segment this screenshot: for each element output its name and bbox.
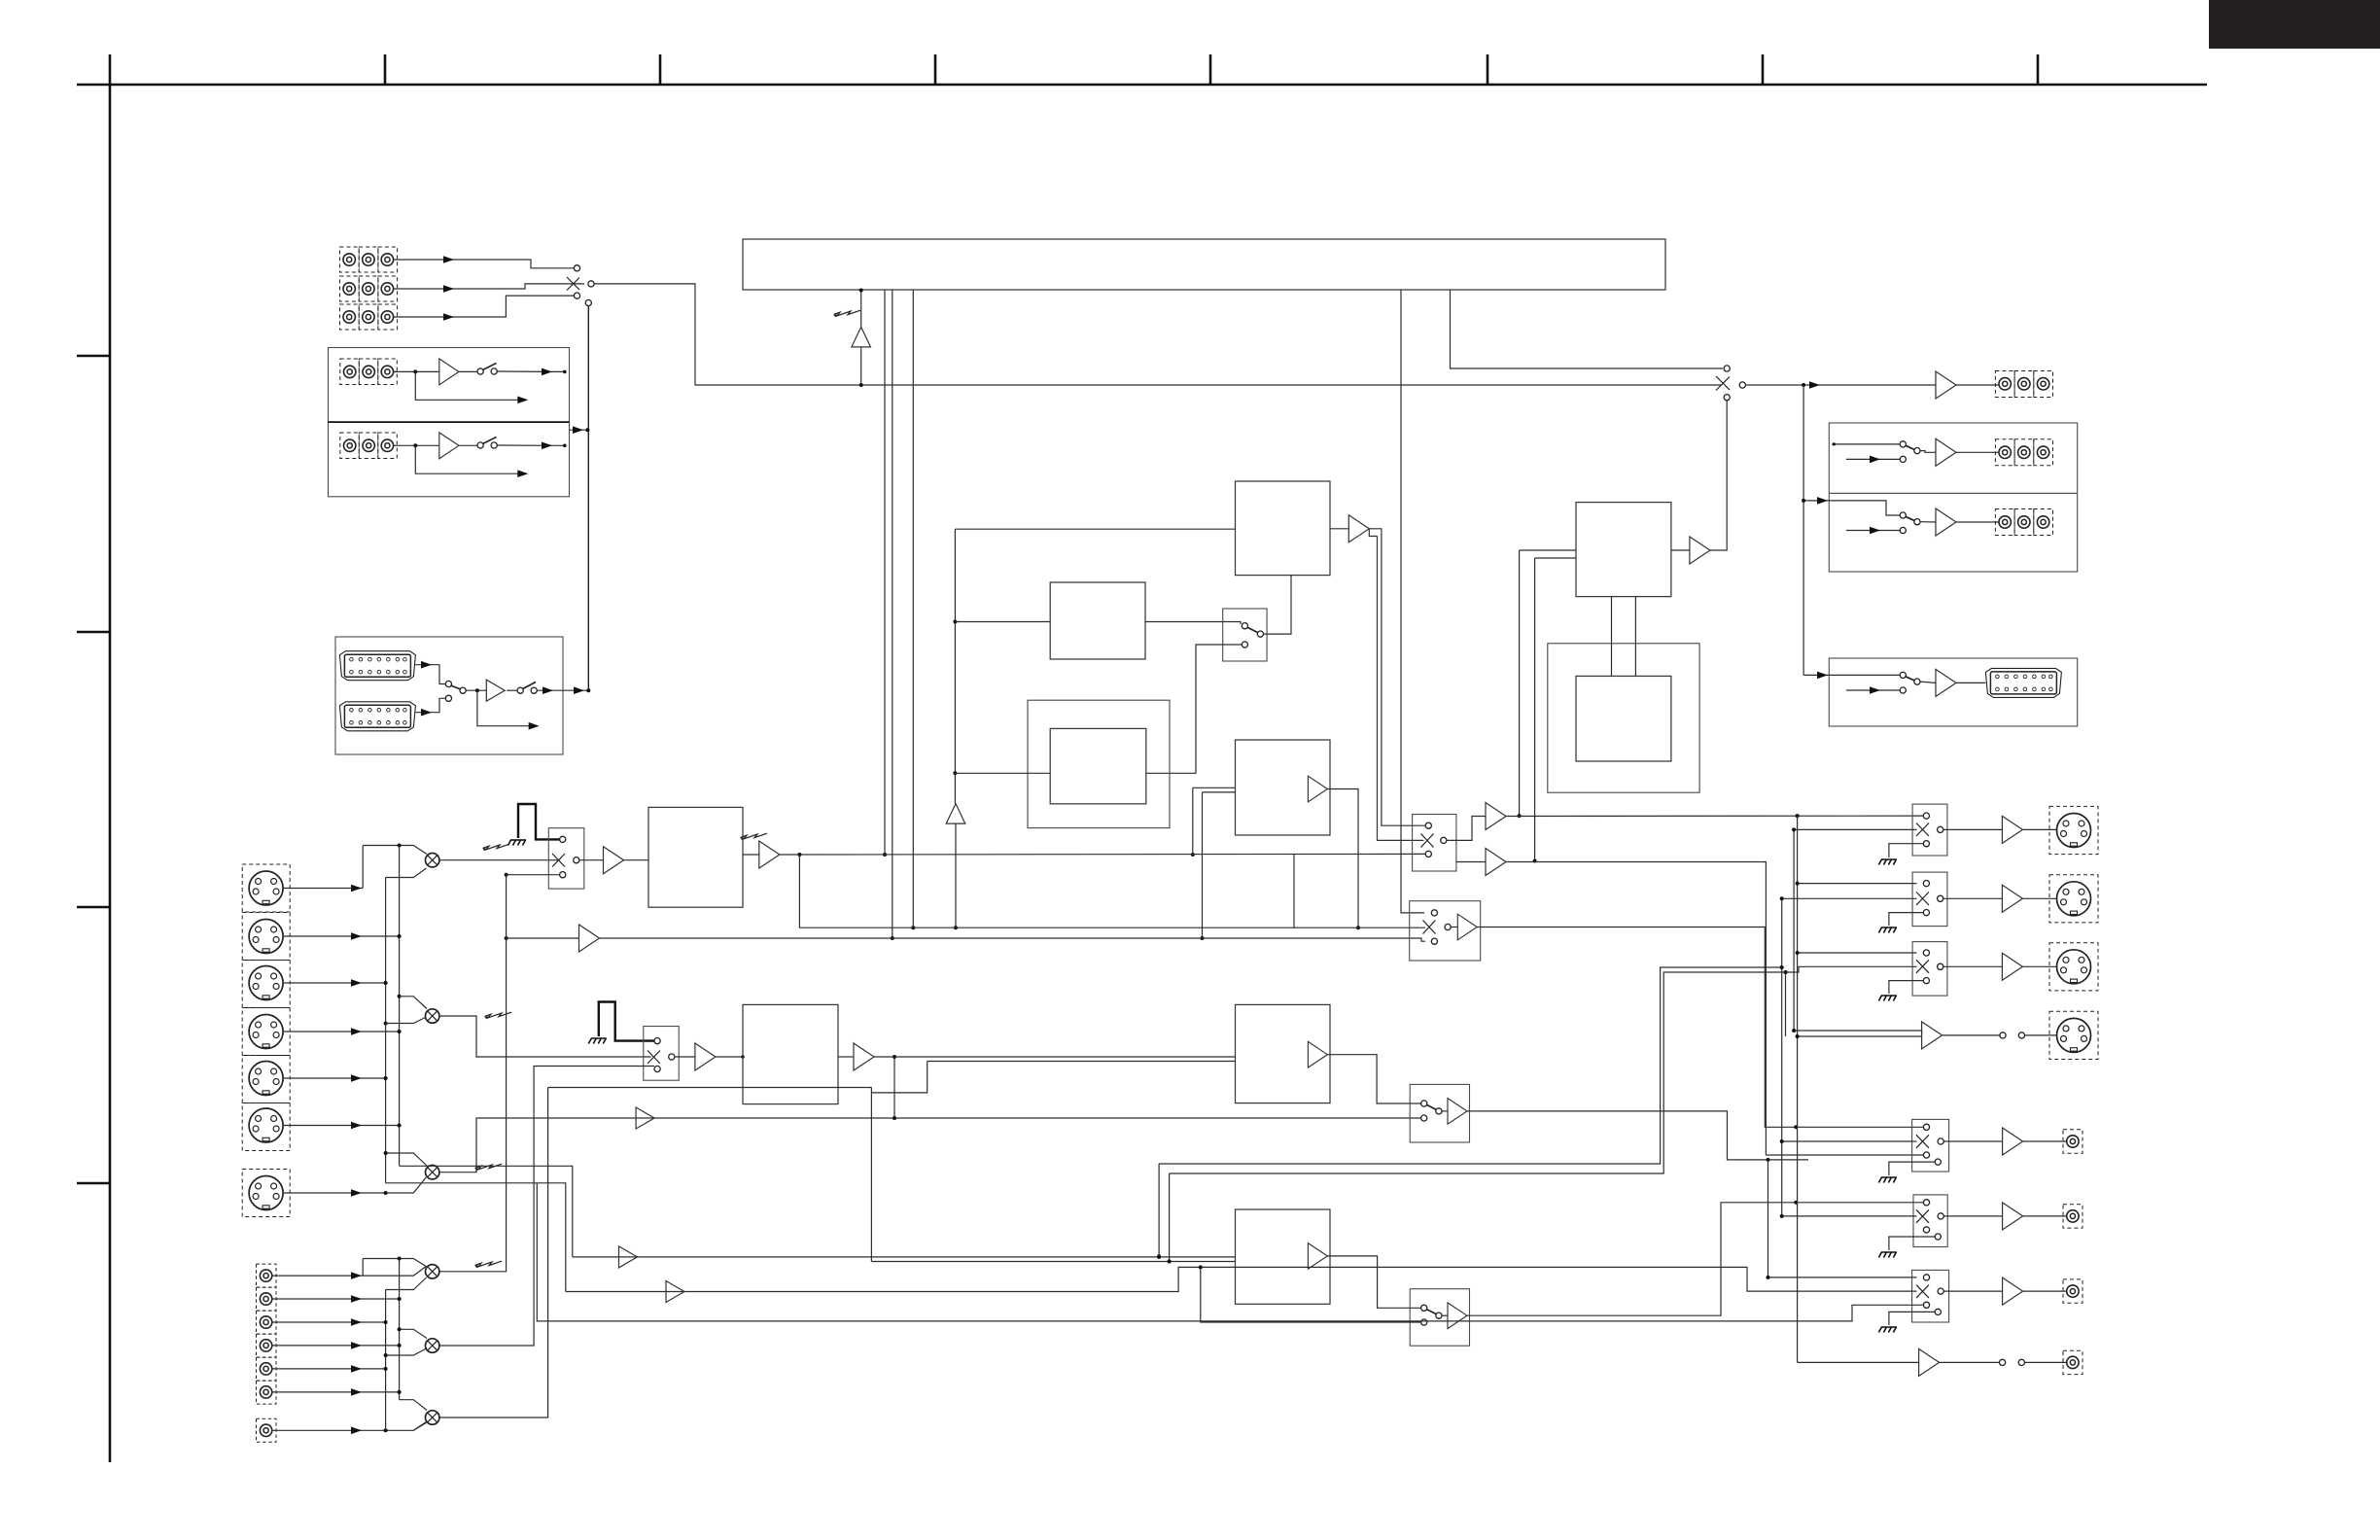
V1 row wire + buffer + switch — [394, 370, 439, 372]
bus drop vertical B — [892, 290, 893, 938]
block0 inner buffer — [1308, 776, 1327, 802]
ground G1 bold wire — [518, 804, 560, 839]
drop from video wire down — [799, 855, 1425, 927]
W885 to composite row1 lower — [1506, 862, 1923, 1156]
s-video output connector 3 — [2057, 950, 2091, 984]
drop pair from block1 buffer output — [1369, 529, 1425, 825]
input switch box 2 — [644, 1027, 679, 1081]
composite mixer A2 — [426, 1339, 439, 1352]
cvout row1 box — [1912, 1119, 1949, 1172]
scart selector to buffer — [466, 689, 486, 691]
DSP block0 — [1236, 740, 1331, 835]
B2 output wire — [1467, 1111, 1808, 1160]
vcr out component jacks row1 — [1999, 446, 2011, 458]
cvout row2 ground — [1889, 1237, 1935, 1250]
tick left 4 — [77, 1182, 110, 1185]
W1329 record wire with buffer — [566, 1267, 1917, 1291]
A3 output up to record riser — [439, 1088, 548, 1418]
block3 input stubs — [1520, 549, 1576, 551]
stub arrow into vcr out box row2 — [1803, 501, 1900, 515]
cvout jack 4 — [2063, 1350, 2082, 1374]
aux combined output arrow to tap line — [570, 429, 588, 431]
bus drop vertical A — [884, 290, 886, 855]
cvout jack 1 — [2063, 1130, 2082, 1153]
spark at mixer3 — [475, 1164, 503, 1171]
second long wire from lower buffer — [507, 937, 579, 939]
mixer1 top feed — [363, 846, 427, 855]
W1359 record wire — [537, 1183, 1923, 1321]
collector vertical V410 — [399, 846, 401, 1167]
box A lower out to buffer2 — [1456, 861, 1486, 863]
mixer2 top feed — [400, 997, 427, 1009]
svout row1 X feed — [1794, 828, 1916, 830]
svout row3 ground — [1889, 981, 1923, 994]
cvout row4 buffer — [1919, 1348, 1940, 1376]
DSP block A — [1236, 1004, 1331, 1102]
block2 input wire — [955, 621, 1050, 623]
mixer1 output to switch box 1 — [439, 859, 560, 861]
double box inner DSP (right) — [1576, 676, 1671, 761]
scart selector contacts — [445, 681, 451, 686]
mixer2 bottom feed — [386, 1017, 427, 1024]
wire row2 to selector — [394, 284, 584, 289]
aux video-4 input jacks — [344, 366, 356, 377]
selector S1 contacts — [574, 265, 579, 271]
buffer1 (monitor S Y) — [1486, 803, 1506, 830]
W1360 to selector C lower — [1201, 1267, 1421, 1322]
composite mixer A3 — [426, 1411, 439, 1424]
buffer C — [1442, 1314, 1448, 1316]
svout row2 buffer — [1943, 897, 2003, 899]
cvout row3 ground — [1889, 1312, 1935, 1325]
component input jacks row 2 — [343, 283, 355, 295]
monitor out RCA trio — [1995, 371, 2052, 398]
tick left 3 — [77, 906, 110, 909]
s-video input connector 3 — [249, 966, 283, 1000]
bus drop vertical D (to selector B) — [1401, 290, 1424, 913]
s-video input connector 4 — [249, 1015, 283, 1049]
svout row1 contacts — [1923, 813, 1929, 819]
tick top 2 — [659, 54, 662, 85]
component input jacks row 3 — [343, 311, 355, 323]
scart box outline — [335, 637, 563, 754]
cv input wires — [272, 1267, 427, 1277]
W839 to s-video out row1 — [1506, 815, 1923, 817]
video block2 output buffer — [838, 1056, 854, 1058]
spark at A1 — [475, 1261, 503, 1268]
switch common up to block1 bottom — [1264, 576, 1292, 635]
s-video input connector 1 — [249, 871, 283, 905]
composite video output jack 4 — [2067, 1356, 2079, 1368]
mixer3 output down to record wire — [439, 1118, 633, 1172]
block3 output buffer — [1671, 549, 1690, 551]
riser from record wire — [870, 1088, 872, 1262]
s-video input connector 5 — [249, 1062, 283, 1096]
svout row4 direct feed pair — [1794, 1031, 1922, 1035]
component input jacks row 1 (dashed boxes) — [340, 247, 398, 330]
ground G2 bold wire — [599, 1002, 654, 1041]
svout row1 box — [1912, 804, 1947, 856]
W1217 from collector — [386, 1183, 566, 1292]
DSP block B — [1236, 1209, 1331, 1304]
s-video output connector 4 — [2057, 1018, 2091, 1052]
monitor out buffer — [1936, 371, 1956, 399]
stub arrow into scart out box — [1803, 674, 1900, 676]
output box outline — [1829, 423, 2077, 572]
video mixer M3 — [426, 1166, 439, 1179]
s-video input connector 6 — [249, 1108, 283, 1142]
s-video output connector 2 — [2057, 882, 2091, 916]
aux box outline — [329, 348, 570, 497]
tick top 4 — [1209, 54, 1212, 85]
cvout row2 buffer — [1943, 1215, 2002, 1217]
svout row2 feeds — [1798, 883, 1917, 885]
W1199 from collector — [400, 1166, 573, 1257]
composite video input jack 1 — [260, 1270, 271, 1281]
svout connector 3 — [2049, 943, 2098, 991]
A1 lower diag — [386, 1277, 427, 1290]
composite video input jack 3 — [260, 1316, 271, 1328]
svout row3 buffer — [1943, 965, 2003, 967]
video block 2 — [743, 1004, 838, 1103]
component input jacks row 1 — [343, 254, 355, 265]
video mixer M2 — [426, 1009, 439, 1023]
record wire W1150 to selector B2 — [633, 1117, 1421, 1119]
C output wire to composite out row2 — [1467, 1203, 1923, 1315]
svout row2 ground — [1889, 913, 1923, 926]
row1 RCA trio — [1995, 439, 2052, 466]
s-video input dashed boxes — [242, 864, 290, 1217]
ground G2 — [588, 1038, 607, 1044]
mixer1 bottom feed — [386, 868, 427, 878]
V1 feedback arrow — [415, 371, 522, 400]
row2 RCA trio — [1995, 509, 2052, 536]
C-line tap down from mixer1 out — [507, 874, 560, 876]
block2 to switch wire — [1145, 622, 1241, 625]
selector contacts — [1724, 366, 1730, 371]
block A output to selector B2 — [1327, 1055, 1420, 1103]
tick top 1 — [384, 54, 387, 85]
V2 row wire + buffer + switch — [394, 444, 439, 446]
cv mixer A3 feeds — [400, 1400, 427, 1411]
A2 output up to video2 switch — [439, 1067, 654, 1347]
composite video input jack 6 — [260, 1386, 271, 1398]
wire tap down to SCART/video2 — [587, 306, 589, 691]
border top line — [77, 84, 2207, 87]
cv mixer A2 feeds — [400, 1329, 427, 1338]
monitor out wire to buffer and jacks — [1745, 384, 1936, 386]
SCART connector 1 — [339, 651, 415, 681]
inner DSP feed from below to switch lower contact — [1146, 645, 1242, 773]
svout connector 1 — [2049, 806, 2098, 854]
tick left 1 — [77, 355, 110, 358]
inner DSP input wire — [955, 772, 1050, 774]
cvout row1 X feed — [1782, 1140, 1917, 1142]
block0 input risers — [1193, 787, 1236, 788]
buffer — [1920, 682, 1936, 682]
scart out box outline — [1829, 658, 2077, 726]
tick top 5 — [1487, 54, 1489, 85]
feeder vertical from block1 input down to video wire — [954, 529, 956, 803]
up amp triangle T1 — [852, 327, 871, 347]
s-video input connector 7 — [249, 1176, 283, 1210]
composite video input jack 7 — [260, 1424, 271, 1436]
svout row2 box — [1912, 872, 1947, 927]
switch after buffer — [507, 689, 517, 691]
second input line pair to block A — [927, 1061, 1236, 1063]
block1 input wire — [955, 528, 1235, 530]
A1 output up to video1 switch — [439, 875, 507, 1272]
vertical from monitor junction down to output boxes — [1802, 385, 1804, 675]
row1 input line — [1832, 443, 1900, 445]
bus rectangle — [743, 239, 1665, 290]
cvout jack 2 — [2063, 1205, 2082, 1228]
vcr out component jacks row2 — [1999, 516, 2011, 528]
svout connector 2 — [2049, 875, 2098, 923]
SCART output connector — [1985, 668, 2061, 697]
spark symbol near T1 — [834, 310, 861, 317]
record pair riser wires — [1159, 967, 1782, 1164]
block B output to selector C — [1327, 1256, 1420, 1308]
buffer after switch1 — [579, 859, 604, 861]
selector box B2 — [1410, 1084, 1469, 1142]
video mixer M1 — [426, 854, 439, 867]
double box outer (right) — [1548, 644, 1699, 792]
svout row1 ground — [1889, 844, 1923, 857]
block A inner buffer — [1308, 1041, 1327, 1067]
video block1 output buffer — [743, 854, 759, 856]
cvout row4 switch contacts — [2000, 1359, 2006, 1365]
svout connector 4 — [2049, 1011, 2098, 1059]
tick top 3 — [934, 54, 937, 85]
composite video output jack 2 — [2067, 1210, 2079, 1222]
selector box A — [1413, 815, 1456, 872]
svout row3 feeds — [1798, 952, 1917, 954]
tick left 2 — [77, 631, 110, 634]
DSP block1 — [1236, 481, 1331, 576]
DSP block2 (middle left) — [1050, 582, 1145, 659]
wire row1 to selector — [394, 260, 574, 268]
wire from DSP buffer up to selector lower contact — [1709, 401, 1727, 550]
block0 output down to record wire — [1327, 789, 1358, 928]
mixer3 top feed — [386, 1153, 427, 1166]
drops to block B inputs — [1158, 1164, 1160, 1256]
switch — [1900, 672, 1906, 678]
row2 buffer — [1920, 521, 1936, 523]
selector box C — [1410, 1289, 1469, 1347]
cvout row2 X feed — [1782, 1215, 1917, 1217]
composite video input jack 2 — [260, 1293, 271, 1305]
svout row1 buffer — [1943, 828, 2003, 830]
composite video input jack 5 — [260, 1363, 271, 1375]
svout row3 box — [1912, 942, 1947, 997]
cvout row3 box — [1912, 1270, 1949, 1322]
buffer after switch2 — [675, 1056, 695, 1058]
tick top 7 — [2037, 54, 2040, 85]
scart out wire with arrows to tap line — [537, 689, 588, 691]
SCART connector 2 — [339, 702, 415, 731]
collector vertical V396 — [385, 878, 387, 1183]
W1297 record wire — [871, 1261, 1235, 1263]
s-video input wires — [283, 888, 363, 890]
spark symbol video1 — [483, 844, 510, 851]
V2 feedback arrow — [415, 445, 522, 473]
block3 down links to inner box — [1611, 597, 1613, 677]
box B output to composite row1 top — [1477, 927, 1923, 1128]
s-video input connector 2 — [249, 920, 283, 954]
svout row4 buffer — [1922, 1022, 1942, 1049]
block1 output buffer — [1330, 528, 1348, 530]
mixer2 output to switch box 2 — [439, 1016, 651, 1057]
composite video output jack 3 — [2067, 1285, 2079, 1297]
composite video output jack 1 — [2067, 1136, 2079, 1147]
box A common up to buffer1 — [1447, 817, 1486, 841]
ground G1 — [508, 840, 527, 846]
cvout jack 3 — [2063, 1279, 2082, 1303]
row1 buffer — [1920, 451, 1936, 453]
switch box center — [1223, 609, 1267, 661]
buffer B2 — [1442, 1110, 1448, 1112]
wire row3 to selector — [394, 296, 574, 317]
buffer B inside box — [1451, 927, 1457, 928]
wire to DSP block A — [874, 1056, 1236, 1058]
composite video input jack 4 — [260, 1340, 271, 1351]
cvout row1 buffer — [1943, 1140, 2002, 1142]
DSP block3 — [1576, 503, 1671, 597]
block B inner buffer — [1308, 1243, 1327, 1270]
monitor video wire from S1 common — [594, 284, 1721, 385]
aux box divider — [329, 421, 570, 423]
surge amp vertical from bus — [860, 290, 862, 327]
cvout row1 ground — [1889, 1162, 1935, 1175]
aux video-5 input jacks — [344, 439, 356, 451]
cvout row3 buffer — [1943, 1290, 2002, 1292]
tick top 6 — [1762, 54, 1765, 85]
scart feedback arrow — [477, 690, 533, 726]
V920 drop to lower record wire — [893, 1057, 895, 1118]
V1 jacks dashed — [340, 359, 398, 459]
scart2 wire — [415, 698, 445, 712]
row2 lower arrow line — [1846, 530, 1900, 532]
buffer2 (monitor S C) — [1486, 849, 1506, 876]
monitor out component jacks — [1999, 378, 2011, 390]
collector vertical V373 — [362, 846, 364, 889]
output box divider — [1829, 492, 2077, 494]
link from video wire down to record wire — [1293, 855, 1295, 927]
double box outer (center) — [1028, 700, 1170, 827]
s-video output connector 1 — [2057, 814, 2091, 848]
row1 lower arrow line — [1846, 458, 1900, 460]
double box inner DSP — [1050, 728, 1146, 803]
selector box B — [1410, 901, 1481, 961]
main video wire right — [780, 853, 1425, 856]
input switch box 1 — [548, 828, 584, 889]
border left line — [109, 54, 112, 1462]
up amp triangle T2 — [946, 804, 965, 824]
output bus verticals — [1781, 898, 1783, 1216]
cvout row2 box — [1913, 1195, 1947, 1247]
selector S1 extra tap contact — [585, 299, 591, 305]
bus drop to monitor selector top contact — [1451, 290, 1724, 368]
video block 1 — [648, 807, 743, 907]
row2 switch — [1900, 512, 1906, 518]
spark symbol video2 — [485, 1012, 512, 1019]
cv input dashed boxes — [257, 1264, 277, 1442]
verticals from block3 inputs down — [1519, 550, 1521, 816]
svout row4 switch contacts — [2000, 1032, 2006, 1038]
bus drop vertical C — [912, 290, 914, 927]
cvout row4 feed — [1798, 1361, 1919, 1363]
composite mixer A1 — [426, 1265, 439, 1278]
scart1 wire — [415, 665, 445, 684]
row1 switch — [1900, 441, 1906, 447]
cv collector verticals — [362, 1259, 364, 1277]
page number black box — [2209, 0, 2380, 49]
lower arrow line — [1846, 689, 1900, 691]
W1293 record wire with buffer — [573, 1256, 1236, 1258]
cvout row3 top feed — [1768, 1277, 1917, 1278]
